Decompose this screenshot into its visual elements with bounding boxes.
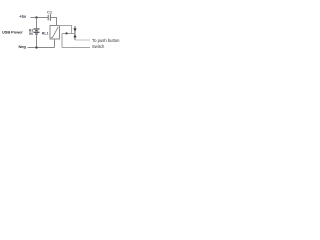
svg-text:USB Power: USB Power xyxy=(2,29,23,34)
wire battery top stem xyxy=(36,18,38,29)
svg-text:+5v: +5v xyxy=(19,14,27,19)
svg-text:RL1: RL1 xyxy=(42,32,49,36)
wire box bottom pin xyxy=(54,39,56,48)
thermistor box RL1 xyxy=(50,26,60,40)
wire C1 to box top xyxy=(51,18,57,26)
capacitor C1 plates xyxy=(48,14,50,21)
wire mid horizontal xyxy=(62,33,75,35)
wire right drop xyxy=(61,34,63,48)
svg-text:Neg: Neg xyxy=(19,44,27,49)
wire faint to switch xyxy=(75,39,90,41)
wire battery bottom stem xyxy=(36,34,38,47)
wire bottom right rail xyxy=(62,47,90,49)
battery B1 plates xyxy=(34,29,40,34)
terminal lower arrow xyxy=(74,34,76,40)
wire box top-right to terminal xyxy=(60,26,72,34)
svg-text:C1: C1 xyxy=(47,9,53,14)
junction top rail / battery xyxy=(35,16,37,18)
wire bottom rail xyxy=(28,47,55,49)
terminal upper arrow xyxy=(74,26,76,34)
junction bottom rail / battery xyxy=(35,46,37,48)
svg-text:To push button: To push button xyxy=(92,38,120,43)
svg-text:5V: 5V xyxy=(29,32,34,36)
svg-text:Switch: Switch xyxy=(92,44,105,49)
junction mid wire xyxy=(65,32,67,34)
wire top rail xyxy=(31,17,49,19)
